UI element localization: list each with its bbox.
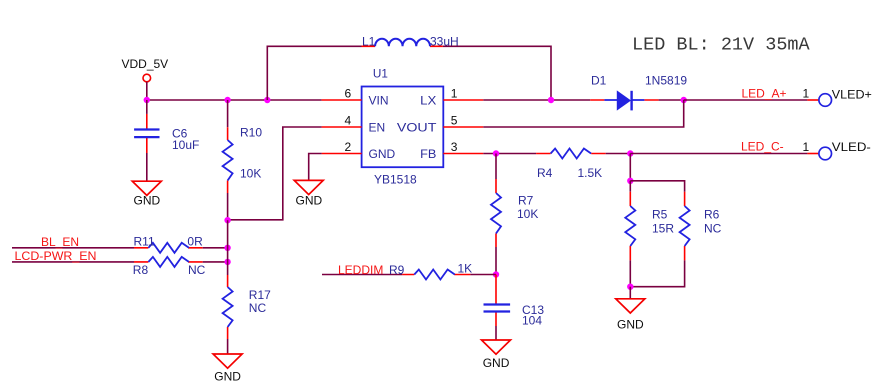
wire R11 to node: [203, 247, 228, 249]
wire R7 top: [495, 154, 497, 180]
ground symbol C6: [132, 181, 161, 195]
ground symbol R5R6: [616, 299, 645, 313]
svg-text:GND: GND: [214, 370, 241, 384]
wire R4 to LED_C- node: [606, 153, 631, 155]
svg-text:2: 2: [345, 140, 352, 154]
inductor L1 coil: [375, 39, 430, 47]
svg-text:LX: LX: [420, 93, 436, 107]
node VDD/C6 junction: [144, 97, 150, 103]
wire R10 top: [227, 100, 229, 127]
wire L1 top rail right and down: [443, 46, 551, 100]
power port VDD_5V circle: [143, 74, 151, 82]
wire R9 to node: [470, 274, 496, 276]
pin VLED+ stub: [807, 99, 819, 101]
wire GND pin to ground: [309, 154, 322, 181]
connector VLED+ circle: [819, 94, 832, 107]
node LX/L1 junction: [548, 97, 554, 103]
pin 6 stub: [322, 99, 362, 101]
node enable junction: [224, 217, 230, 223]
resistor R17 zigzag: [223, 287, 233, 327]
svg-text:0R: 0R: [187, 235, 203, 249]
svg-text:U1: U1: [373, 67, 388, 81]
svg-text:104: 104: [522, 314, 542, 328]
node R5R6 top rail junction: [627, 178, 633, 184]
diode D1 leads: [604, 99, 644, 101]
svg-text:3: 3: [451, 140, 458, 154]
svg-text:1: 1: [451, 87, 458, 101]
svg-text:R8: R8: [133, 263, 149, 277]
wire R7 bottom: [495, 247, 497, 275]
svg-text:GND: GND: [134, 194, 161, 208]
svg-text:GND: GND: [369, 147, 396, 161]
capacitor C6 plates: [134, 130, 159, 138]
wire VOUT row: [483, 100, 683, 127]
diode D1 triangle: [617, 91, 630, 109]
wire EN to enable node: [228, 127, 322, 220]
node BL_EN junction: [224, 245, 230, 251]
svg-text:6: 6: [345, 87, 352, 101]
wire VDD row horizontal: [147, 99, 322, 101]
resistor R11 zigzag: [148, 243, 188, 253]
wire LED_A+ row: [684, 99, 808, 101]
svg-text:R4: R4: [537, 166, 553, 180]
svg-text:GND: GND: [296, 194, 323, 208]
svg-text:R5: R5: [652, 208, 668, 222]
svg-text:D1: D1: [591, 74, 607, 88]
wire D1 cathode to node: [659, 99, 684, 101]
wire VDD_5V vertical: [146, 82, 148, 100]
node R5R6 bottom rail junction: [627, 284, 633, 290]
resistor R6 zigzag: [680, 206, 690, 246]
pin 5 stub: [443, 126, 483, 128]
svg-text:NC: NC: [249, 301, 267, 315]
wire to ground R5R6: [629, 287, 631, 299]
resistor R9 pins: [402, 274, 470, 276]
svg-text:LEDDIM: LEDDIM: [338, 263, 383, 277]
IC U1 box: [362, 87, 444, 168]
svg-text:YB1518: YB1518: [374, 173, 417, 187]
svg-text:1: 1: [803, 140, 810, 154]
pin 4 stub: [322, 126, 362, 128]
wire enable column: [227, 220, 229, 275]
svg-text:LCD-PWR_EN: LCD-PWR_EN: [15, 249, 97, 263]
svg-text:VLED+: VLED+: [832, 88, 872, 102]
svg-text:R7: R7: [518, 194, 534, 208]
svg-text:LED BL: 21V 35mA: LED BL: 21V 35mA: [632, 35, 811, 56]
ground symbol C13: [482, 340, 511, 354]
resistor R7 zigzag: [491, 193, 501, 233]
svg-text:L1: L1: [362, 35, 376, 49]
resistor R7 pins: [495, 179, 497, 247]
pin 2 stub: [322, 153, 362, 155]
resistor R9 zigzag: [414, 270, 455, 280]
wire C13 bottom: [495, 326, 497, 340]
wire LX row: [483, 99, 590, 101]
svg-text:FB: FB: [420, 147, 436, 161]
svg-text:VDD_5V: VDD_5V: [122, 57, 169, 71]
svg-text:10uF: 10uF: [172, 138, 199, 152]
svg-text:LED_A+: LED_A+: [742, 87, 787, 101]
node LEDDIM junction: [493, 271, 499, 277]
wire C6 bottom: [146, 153, 148, 181]
svg-text:R6: R6: [704, 208, 720, 222]
svg-text:GND: GND: [617, 318, 644, 332]
node LED_C- junction: [627, 150, 633, 156]
svg-text:R10: R10: [240, 126, 262, 140]
resistor R5 pins: [629, 192, 631, 261]
resistor R11 pins: [134, 247, 203, 249]
wire R10 bottom: [227, 193, 229, 220]
ground symbol U1 pin2: [294, 180, 323, 194]
node L1 branch junction: [264, 97, 270, 103]
wire FB row left: [483, 153, 536, 155]
svg-text:5: 5: [451, 114, 458, 128]
pin 3 stub: [443, 153, 483, 155]
svg-text:EN: EN: [369, 120, 386, 134]
resistor R10 zigzag: [223, 140, 233, 180]
node FB/R7 junction: [493, 150, 499, 156]
pin 1 stub: [443, 99, 483, 101]
svg-text:NC: NC: [188, 263, 206, 277]
wire L1 branch up and top rail left: [267, 46, 361, 100]
capacitor C6 pins: [146, 114, 148, 153]
wire R6 bottom and bottom rail: [630, 260, 684, 286]
wire R5 top: [629, 181, 631, 192]
diode D1 cathode bar: [630, 91, 632, 111]
pin VLED- stub: [807, 153, 819, 155]
svg-text:VOUT: VOUT: [397, 120, 437, 134]
svg-text:BL_EN: BL_EN: [41, 235, 79, 249]
svg-text:10K: 10K: [240, 167, 261, 181]
resistor R8 zigzag: [148, 257, 188, 267]
svg-text:1N5819: 1N5819: [645, 74, 687, 88]
svg-text:R17: R17: [249, 288, 271, 302]
wire LED_C- row: [630, 153, 807, 155]
resistor R4 pins: [536, 153, 606, 155]
wire LEDDIM row: [322, 274, 402, 276]
node R10 branch junction: [224, 97, 230, 103]
capacitor C13 pins: [495, 275, 497, 327]
svg-text:15R: 15R: [652, 222, 674, 236]
wire LCD-PWR_EN row: [12, 261, 134, 263]
svg-text:GND: GND: [483, 356, 510, 370]
svg-text:1.5K: 1.5K: [578, 166, 603, 180]
resistor R6 pins: [684, 192, 686, 261]
wire R17 bottom: [227, 339, 229, 354]
resistor R5 zigzag: [625, 206, 635, 246]
node LCD-PWR_EN junction: [224, 259, 230, 265]
wire R5R6 branch down: [629, 154, 631, 181]
wire R8 to node: [203, 261, 228, 263]
wire R5 bottom: [629, 260, 631, 286]
wire BL_EN row: [12, 247, 134, 249]
svg-text:4: 4: [345, 114, 352, 128]
diode D1 pins: [590, 99, 658, 101]
node D1 cathode junction: [681, 97, 687, 103]
ground symbol R17: [213, 354, 242, 368]
resistor R10 pins: [227, 127, 229, 193]
resistor R4 zigzag: [551, 149, 592, 159]
svg-text:VIN: VIN: [369, 93, 389, 107]
capacitor C13 plates: [484, 305, 511, 312]
wire C6 top: [146, 100, 148, 114]
svg-text:VLED-: VLED-: [832, 140, 871, 154]
svg-text:LED_C-: LED_C-: [741, 140, 784, 154]
resistor R8 pins: [134, 261, 203, 263]
svg-text:1: 1: [803, 87, 810, 101]
inductor L1 pins: [362, 45, 443, 47]
svg-text:R11: R11: [134, 235, 155, 249]
svg-text:10K: 10K: [517, 207, 538, 221]
wire R5R6 top rail: [630, 181, 684, 192]
resistor R17 pins: [227, 275, 229, 339]
svg-text:NC: NC: [704, 222, 722, 236]
connector VLED- circle: [819, 147, 832, 160]
svg-text:1K: 1K: [458, 262, 473, 276]
